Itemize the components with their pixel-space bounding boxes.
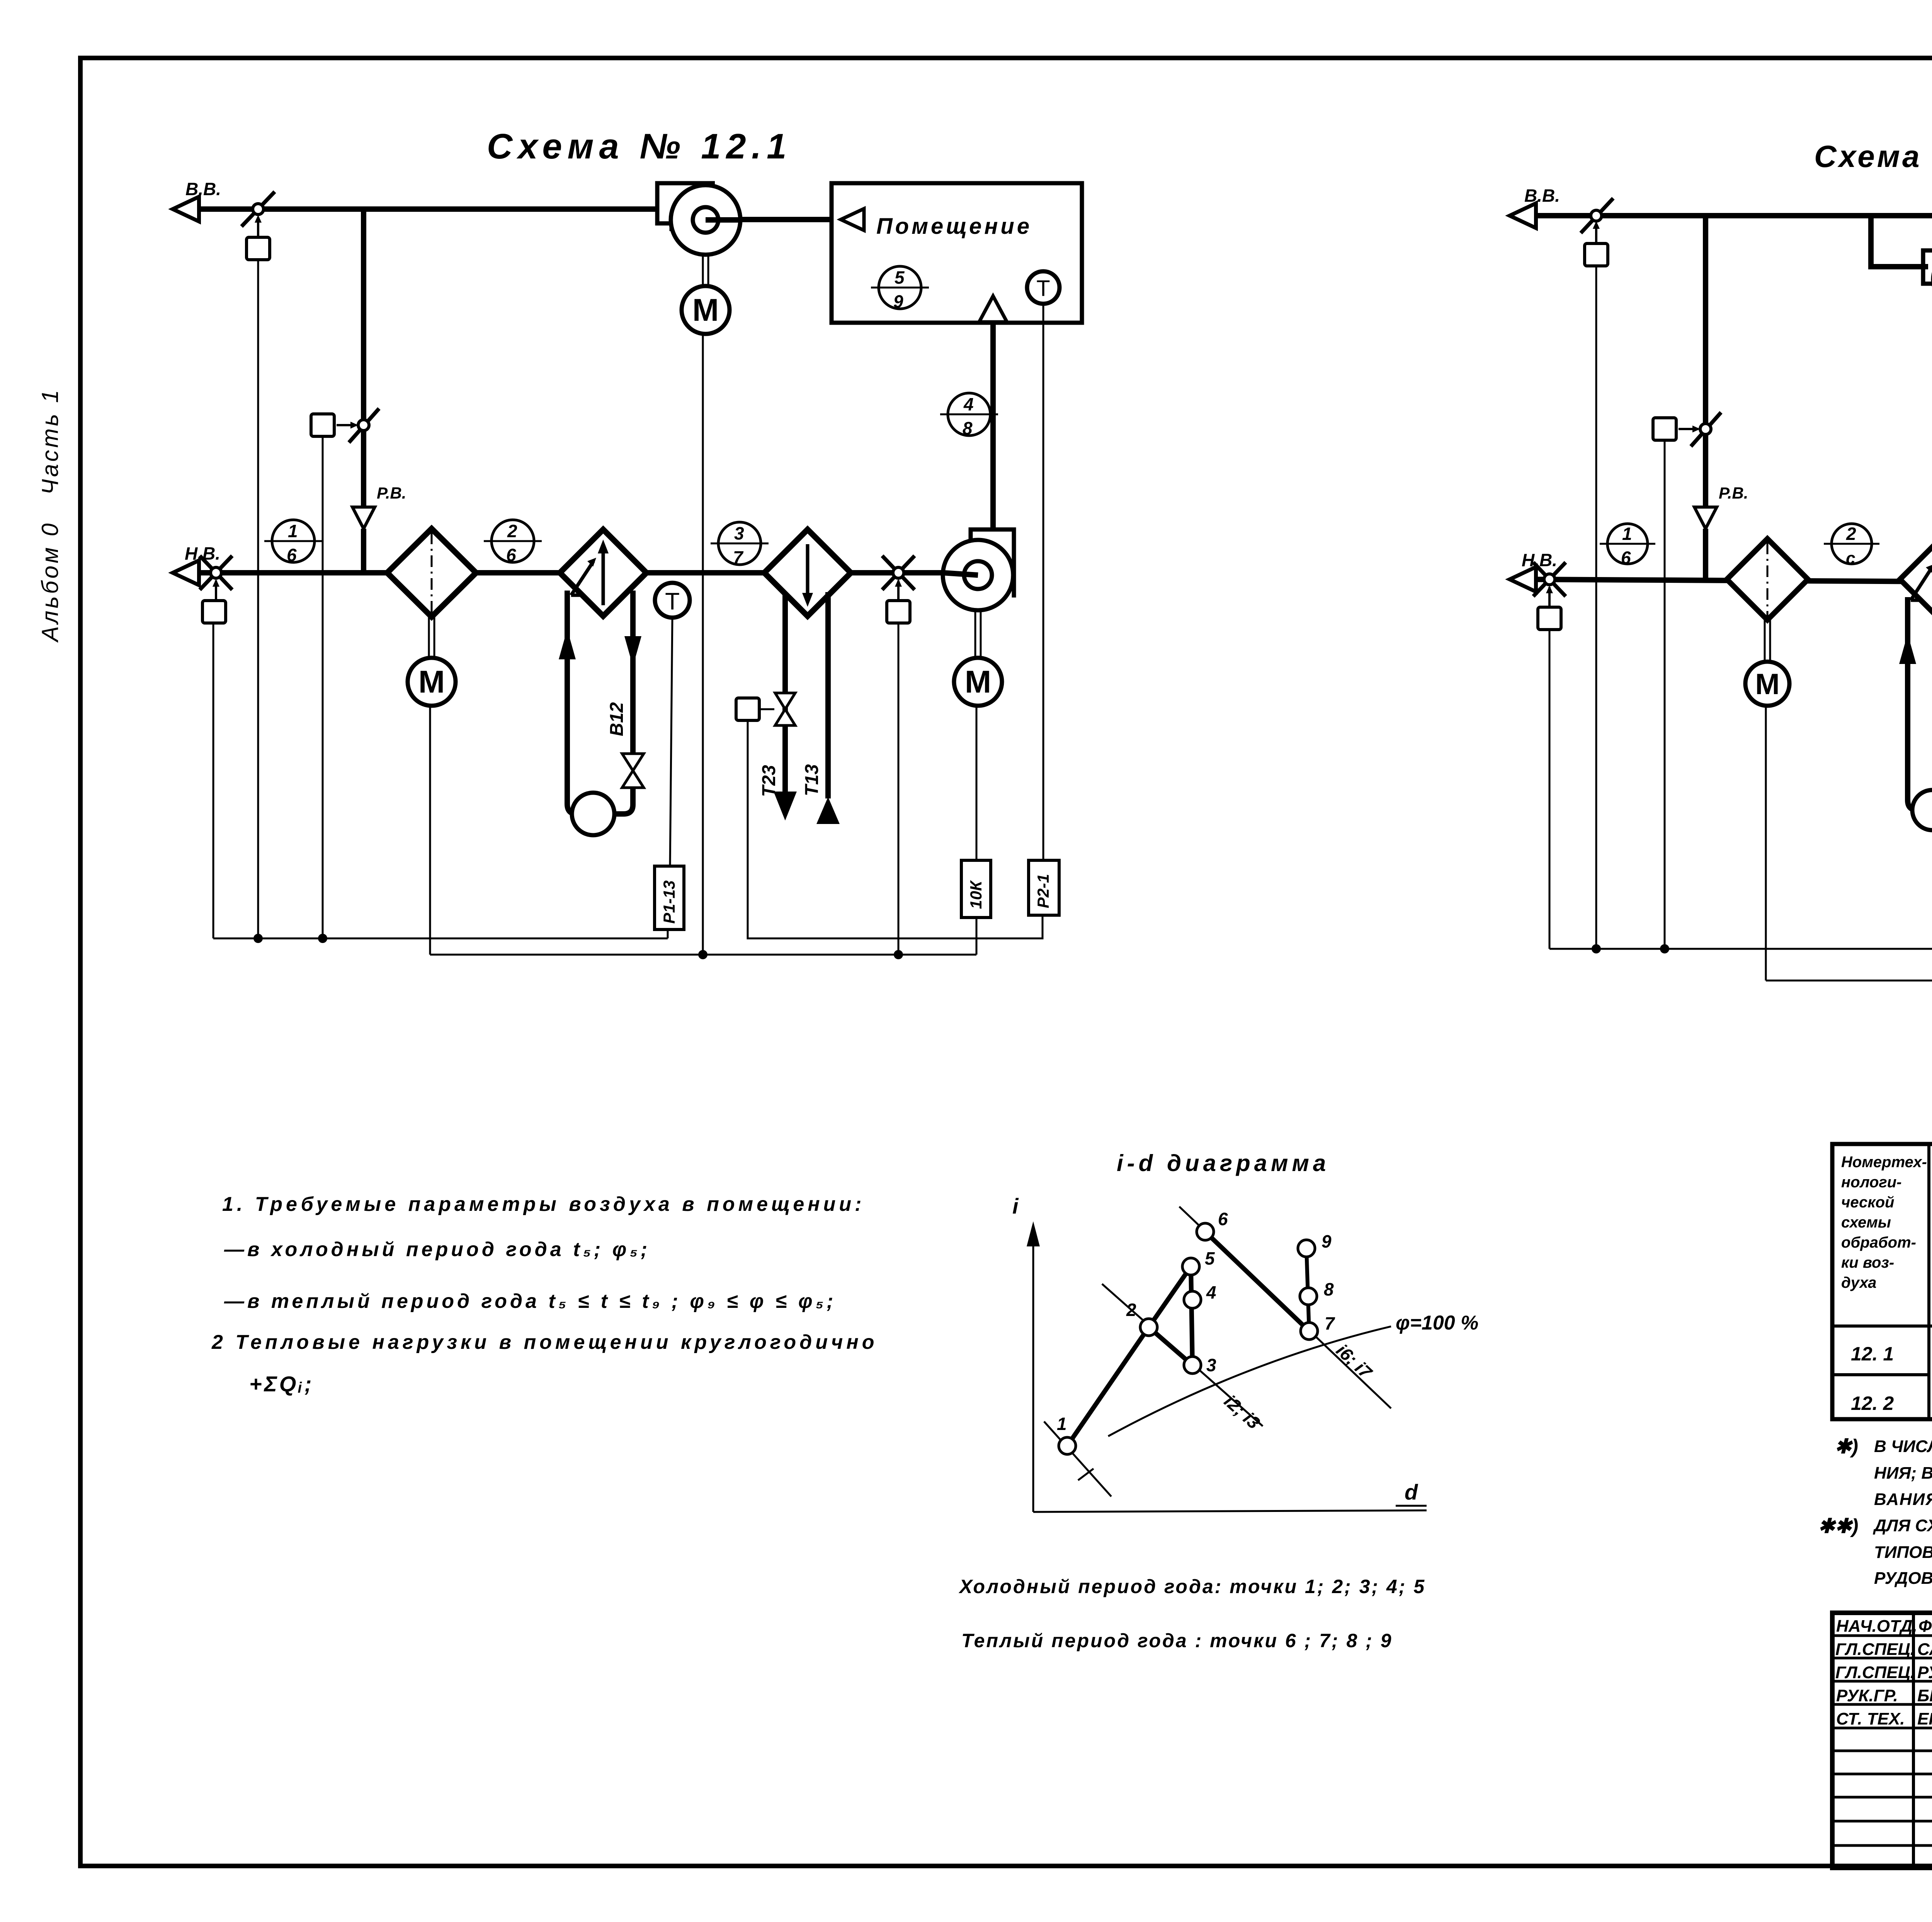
heater W3 control arrow bbox=[1911, 564, 1932, 600]
motor M3 bbox=[682, 286, 730, 334]
tb col a bbox=[1912, 1613, 1915, 1868]
svg-text:РУБЧИНСКИЙ: РУБЧИНСКИЙ bbox=[1917, 1662, 1932, 1682]
svg-text:7: 7 bbox=[1325, 1313, 1335, 1333]
svg-text:нологи-: нологи- bbox=[1841, 1174, 1901, 1191]
table frame bbox=[1832, 1144, 1932, 1419]
thin line i2-i3 bbox=[1102, 1284, 1263, 1426]
TITLEBLOCK bbox=[1832, 1613, 1932, 1869]
svg-text:Холодный период года: точки: Холодный период года: точки 1; 2; 3; 4; … bbox=[958, 1576, 1426, 1597]
wire РВ to supply bbox=[361, 529, 366, 573]
motor M4 bbox=[1745, 662, 1789, 706]
svg-text:М: М bbox=[965, 664, 991, 700]
svg-text:4: 4 bbox=[963, 394, 974, 414]
sensor T1 bbox=[655, 583, 690, 618]
svg-text:Т13: Т13 bbox=[802, 764, 822, 796]
filter F1 diamond bbox=[387, 529, 476, 617]
svg-text:БРОНШТЕЙН: БРОНШТЕЙН bbox=[1917, 1685, 1932, 1705]
tick at 1 bbox=[1078, 1469, 1094, 1480]
svg-text:6: 6 bbox=[287, 545, 297, 565]
pipe to pump bbox=[614, 788, 633, 814]
actuator square S4 bbox=[736, 698, 759, 720]
fan riser to room bbox=[990, 323, 996, 529]
header col0 text bbox=[1841, 1154, 1927, 1291]
d axis bbox=[1033, 1480, 1427, 1512]
filter shaft bbox=[1765, 620, 1770, 662]
heater W3 diamond bbox=[1900, 539, 1932, 620]
svg-text:ГЛ.СПЕЦ.: ГЛ.СПЕЦ. bbox=[1835, 1663, 1915, 1682]
svg-text:В ЧИСЛИТЕЛЕ - ДЛЯ КОНДИЦИОНЕРО: В ЧИСЛИТЕЛЕ - ДЛЯ КОНДИЦИОНЕРОВ С ЭЛЕКТР… bbox=[1874, 1436, 1932, 1456]
filter shaft bbox=[429, 617, 434, 658]
supply fan FAN2 bbox=[943, 529, 1014, 610]
В.В. arrow bbox=[173, 197, 199, 221]
svg-text:Р.В.: Р.В. bbox=[1719, 484, 1748, 502]
process line 3-5 bbox=[1191, 1267, 1192, 1365]
point 1 bbox=[1057, 1414, 1076, 1454]
actuator square S1 bbox=[247, 237, 270, 260]
svg-text:РУДОВАНИЕ” С ИСКЛЮЧЕНИЕМ А: РУДОВАНИЕ” С ИСКЛЮЧЕНИЕМ АППАРАТУРЫ УПРА… bbox=[1874, 1569, 1932, 1588]
thin line i6-i7 bbox=[1179, 1207, 1391, 1408]
svg-text:В12: В12 bbox=[607, 702, 627, 736]
svg-text:i-d диаграмма: i-d диаграмма bbox=[1117, 1150, 1330, 1176]
wire from S1 to bus bbox=[257, 260, 259, 938]
svg-text:d: d bbox=[1405, 1480, 1418, 1504]
role labels bbox=[1835, 1617, 1917, 1728]
titleblock frame bbox=[1832, 1613, 1932, 1868]
svg-text:Т: Т bbox=[1036, 276, 1050, 301]
bottom bus bbox=[1766, 980, 1932, 982]
svg-text:Р.В.: Р.В. bbox=[377, 484, 406, 502]
FOOTNOTES bbox=[1818, 1435, 1932, 1619]
svg-text:2 Тепловые нагрузки в пом: 2 Тепловые нагрузки в помещении круглого… bbox=[211, 1331, 878, 1353]
box Р1-13 bbox=[655, 866, 684, 930]
svg-text:—в холодный период года t₅; φ₅: —в холодный период года t₅; φ₅; bbox=[224, 1238, 650, 1261]
damper D6 on recirculation bbox=[1679, 412, 1721, 446]
node circle 2/с bbox=[1824, 524, 1879, 568]
room box 12.1 bbox=[832, 183, 1082, 323]
node circle 1/6 bbox=[1600, 524, 1655, 568]
svg-text:НИЯ; В ЗНАМЕНАТЕЛЕ- ДЛЯ КОНД: НИЯ; В ЗНАМЕНАТЕЛЕ- ДЛЯ КОНДИЦИОНЕРОВ С … bbox=[1874, 1463, 1932, 1483]
branch to fan4 bbox=[1871, 216, 1928, 267]
fan2 shaft bbox=[975, 610, 981, 658]
bus A left bbox=[213, 938, 668, 940]
svg-text:Схема № 12.2: Схема № 12.2 bbox=[1814, 139, 1932, 174]
svg-text:10К: 10К bbox=[967, 880, 985, 909]
supply duct Н.В. bbox=[1522, 579, 1932, 584]
point 8 bbox=[1300, 1279, 1334, 1305]
motor M1 bbox=[408, 658, 456, 706]
svg-text:6: 6 bbox=[1218, 1209, 1228, 1229]
exhaust fan FAN4 lower bbox=[1923, 250, 1932, 307]
svg-text:САДОВСКАЯ: САДОВСКАЯ bbox=[1917, 1640, 1932, 1659]
damper D1 on exhaust bbox=[241, 192, 275, 237]
node circle 2/6 bbox=[484, 520, 542, 565]
wire S4 to bus bbox=[748, 720, 1043, 938]
fan1 shaft bbox=[703, 255, 708, 286]
point 7 bbox=[1301, 1313, 1335, 1340]
pump P1 bbox=[572, 793, 614, 835]
svg-text:7: 7 bbox=[733, 547, 744, 567]
heater W1 diamond bbox=[560, 529, 646, 616]
actuator square S2 bbox=[311, 414, 334, 436]
node circle 5/9 bbox=[871, 266, 929, 312]
svg-text:М: М bbox=[418, 664, 445, 700]
point 6 bbox=[1197, 1209, 1228, 1240]
Т13 arrow bbox=[816, 797, 840, 824]
junction bbox=[318, 934, 327, 943]
process line 2-5 bbox=[1149, 1267, 1191, 1327]
svg-text:✱): ✱) bbox=[1835, 1435, 1858, 1458]
damper D4 before fan bbox=[882, 556, 915, 601]
svg-text:8: 8 bbox=[963, 418, 973, 438]
room sensor T2 bbox=[1027, 271, 1060, 304]
svg-text:2: 2 bbox=[1126, 1300, 1136, 1320]
svg-text:5: 5 bbox=[1205, 1248, 1215, 1268]
junction bbox=[698, 950, 707, 959]
exhaust duct В.В. bbox=[1522, 213, 1932, 218]
i axis bbox=[1012, 1194, 1040, 1512]
svg-text:1: 1 bbox=[1622, 524, 1632, 544]
svg-text:Номертех-: Номертех- bbox=[1841, 1154, 1927, 1171]
heater W2 arrow bbox=[802, 544, 813, 607]
svg-text:9: 9 bbox=[1321, 1231, 1332, 1251]
recirculation duct bbox=[361, 209, 366, 507]
svg-text:ческой: ческой bbox=[1841, 1194, 1894, 1211]
filter dash-dot bbox=[431, 533, 433, 614]
TABLE bbox=[1832, 1144, 1932, 1419]
svg-text:3: 3 bbox=[734, 523, 744, 543]
wire S6 to bus bbox=[1595, 266, 1597, 949]
node circle 3/7 bbox=[711, 522, 769, 567]
svg-text:5: 5 bbox=[895, 267, 905, 288]
pipe supply W3 bbox=[1899, 597, 1917, 810]
heater W2 diamond bbox=[764, 529, 851, 616]
pipe Т13 bbox=[825, 592, 831, 798]
pipe Т23 bbox=[782, 592, 788, 795]
Н.В. arrow bbox=[173, 560, 199, 585]
Р.В. triangle bbox=[352, 507, 375, 529]
Т23 arrow bbox=[774, 792, 797, 821]
svg-text:Альбом 0 Часть 1: Альбом 0 Часть 1 bbox=[37, 388, 63, 643]
svg-text:ВАНИЯ;: ВАНИЯ; bbox=[1874, 1490, 1932, 1509]
svg-text:схемы: схемы bbox=[1841, 1214, 1891, 1231]
wire M2 to box bbox=[976, 706, 978, 860]
wire S7 to bus bbox=[1664, 440, 1666, 949]
damper D7 supply inlet bbox=[1533, 562, 1566, 607]
wire M4 to bus bbox=[1765, 706, 1767, 981]
row header bottom bbox=[1832, 1324, 1932, 1328]
tb name rows bbox=[1832, 1636, 1932, 1845]
actuator square S6 bbox=[1585, 243, 1608, 266]
svg-text:φ=100 %: φ=100 % bbox=[1396, 1312, 1478, 1334]
svg-text:Т: Т bbox=[665, 588, 680, 615]
junction bbox=[894, 950, 903, 959]
wire from S2 to bus bbox=[322, 436, 324, 938]
svg-text:Р2-1: Р2-1 bbox=[1034, 874, 1052, 908]
svg-text:СТ. ТЕХ.: СТ. ТЕХ. bbox=[1836, 1709, 1905, 1728]
svg-text:12. 2: 12. 2 bbox=[1851, 1393, 1894, 1414]
link S4-V2 bbox=[759, 708, 774, 710]
person names bbox=[1917, 1617, 1932, 1728]
process line 1-2 bbox=[1067, 1327, 1149, 1446]
point 5 bbox=[1182, 1248, 1215, 1275]
junction bbox=[1660, 944, 1669, 953]
svg-text:i: i bbox=[1012, 1194, 1019, 1218]
row 12.1/12.2 col0 bbox=[1832, 1373, 1929, 1376]
wire T1 to Р1-13 bbox=[670, 618, 672, 866]
heater W1 control arrow bbox=[571, 558, 596, 595]
svg-text:12. 1: 12. 1 bbox=[1851, 1343, 1894, 1365]
pump P2 bbox=[1912, 790, 1932, 830]
svg-text:Схема № 12.1: Схема № 12.1 bbox=[487, 127, 792, 166]
svg-text:ЕРИНА: ЕРИНА bbox=[1917, 1709, 1932, 1728]
col line 1 bbox=[1927, 1144, 1930, 1419]
supply duct Н.В. bbox=[185, 570, 978, 575]
wire РВ to supply bbox=[1703, 529, 1708, 579]
svg-text:ДЛЯ СХЕМ КТЦ , ПРОСТАВЛЕННЫ: ДЛЯ СХЕМ КТЦ , ПРОСТАВЛЕННЫХ В СКОБКАХ ,… bbox=[1872, 1516, 1932, 1535]
box Р2-1 bbox=[1029, 860, 1059, 915]
process line 2-3 bbox=[1149, 1327, 1192, 1365]
motor M2 bbox=[954, 658, 1002, 706]
svg-text:ГЛ.СПЕЦ.: ГЛ.СПЕЦ. bbox=[1835, 1640, 1915, 1659]
process line 7-9 bbox=[1306, 1248, 1309, 1331]
box 10К bbox=[961, 860, 991, 918]
svg-text:6: 6 bbox=[506, 545, 516, 565]
svg-text:8: 8 bbox=[1324, 1279, 1334, 1299]
actuator square S7 bbox=[1653, 418, 1676, 440]
room inlet arrow bbox=[841, 209, 864, 230]
svg-text:4: 4 bbox=[1206, 1282, 1216, 1302]
damper D2 on recirculation bbox=[337, 409, 379, 443]
wire from S3 to bus bbox=[213, 623, 214, 938]
svg-text:ФИНГЕР: ФИНГЕР bbox=[1918, 1617, 1932, 1636]
point 3 bbox=[1184, 1355, 1216, 1375]
recirculation duct bbox=[1703, 216, 1708, 507]
svg-text:3: 3 bbox=[1206, 1355, 1216, 1375]
svg-text:2: 2 bbox=[1846, 524, 1856, 544]
junction bbox=[1592, 944, 1601, 953]
svg-text:2: 2 bbox=[507, 521, 517, 541]
point 2 bbox=[1126, 1300, 1157, 1336]
SCHEMA-12.2 bbox=[1510, 139, 1932, 985]
valve V2 bbox=[775, 693, 795, 725]
svg-text:В.В.: В.В. bbox=[1524, 186, 1560, 206]
exhaust fan FAN1 bbox=[657, 183, 742, 255]
svg-text:9: 9 bbox=[893, 291, 903, 312]
junction bbox=[253, 934, 263, 943]
svg-text:✱✱): ✱✱) bbox=[1818, 1515, 1858, 1537]
node circle 1/6 bbox=[264, 520, 322, 565]
wire box to bus bbox=[667, 930, 669, 938]
wire M1 to bus bbox=[429, 706, 431, 955]
pipe return W1 В12 bbox=[624, 591, 641, 753]
wire T2 to Р2-1 bbox=[1043, 304, 1044, 860]
svg-text:1: 1 bbox=[1057, 1414, 1067, 1434]
svg-text:ки воз-: ки воз- bbox=[1841, 1254, 1894, 1271]
bus A left bbox=[1549, 948, 1932, 950]
filter dash-dot bbox=[1767, 543, 1769, 616]
phi curve bbox=[1108, 1326, 1391, 1436]
svg-text:1. Требуемые параметры воздух: 1. Требуемые параметры воздуха в помещен… bbox=[222, 1193, 865, 1216]
svg-text:В.В.: В.В. bbox=[185, 179, 221, 199]
svg-text:с: с bbox=[1846, 549, 1855, 568]
svg-text:духа: духа bbox=[1841, 1274, 1876, 1291]
point 4 bbox=[1184, 1282, 1216, 1308]
pipe supply W1 bbox=[559, 591, 577, 814]
ID-DIAGRAM bbox=[958, 1150, 1478, 1651]
actuator square S5 bbox=[887, 601, 910, 623]
node circle 4/8 bbox=[940, 393, 998, 438]
svg-text:Помещение: Помещение bbox=[876, 214, 1032, 239]
svg-text:Р1-13: Р1-13 bbox=[660, 880, 678, 924]
wire M3 to bus bbox=[702, 334, 704, 955]
valve V1 bbox=[622, 754, 644, 788]
exhaust duct В.В. bbox=[185, 206, 659, 212]
svg-text:ТИПОВЫЕ ПРОЕКТНЫЕ РЕШЕНИЯ: ТИПОВЫЕ ПРОЕКТНЫЕ РЕШЕНИЯ РАЗДЕЛА „Управ… bbox=[1874, 1543, 1932, 1562]
svg-text:РУК.ГР.: РУК.ГР. bbox=[1836, 1686, 1898, 1705]
wire S8 to bus bbox=[1549, 630, 1551, 949]
svg-text:+ΣQᵢ;: +ΣQᵢ; bbox=[249, 1372, 314, 1396]
bottom bus bbox=[430, 954, 976, 956]
svg-text:6: 6 bbox=[1621, 548, 1631, 568]
wire box to bus bbox=[976, 918, 978, 955]
Н.В. arrow bbox=[1510, 567, 1536, 592]
NOTES-LEFT bbox=[211, 1193, 878, 1396]
filter F2 diamond bbox=[1727, 539, 1808, 620]
damper D5 on exhaust bbox=[1581, 198, 1613, 243]
SCHEMA-12.1 bbox=[173, 127, 1082, 959]
room triangle bbox=[979, 296, 1007, 322]
heater W1 arrow bbox=[598, 540, 609, 605]
svg-text:—в теплый период года t₅ ≤ t: —в теплый период года t₅ ≤ t ≤ t₉ ; φ₉ ≤… bbox=[224, 1290, 836, 1313]
point 9 bbox=[1298, 1231, 1332, 1257]
svg-text:Теплый период года : точки: Теплый период года : точки 6 ; 7; 8 ; 9 bbox=[961, 1630, 1393, 1651]
process line 6-7 bbox=[1205, 1232, 1309, 1331]
thin line through 1 bbox=[1044, 1421, 1111, 1496]
Р.В. triangle bbox=[1694, 507, 1717, 529]
В.В. arrow bbox=[1510, 203, 1536, 228]
svg-text:НАЧ.ОТД.: НАЧ.ОТД. bbox=[1836, 1617, 1917, 1636]
svg-text:обработ-: обработ- bbox=[1841, 1234, 1916, 1251]
svg-text:М: М bbox=[1755, 668, 1779, 701]
svg-text:М: М bbox=[692, 293, 719, 328]
exhaust duct room to fan bbox=[718, 217, 832, 222]
actuator square S8 bbox=[1538, 607, 1561, 630]
actuator square S3 bbox=[202, 601, 226, 623]
wire S5 to bus bbox=[898, 623, 900, 955]
damper D3 supply inlet bbox=[200, 556, 232, 601]
svg-text:1: 1 bbox=[288, 521, 298, 541]
